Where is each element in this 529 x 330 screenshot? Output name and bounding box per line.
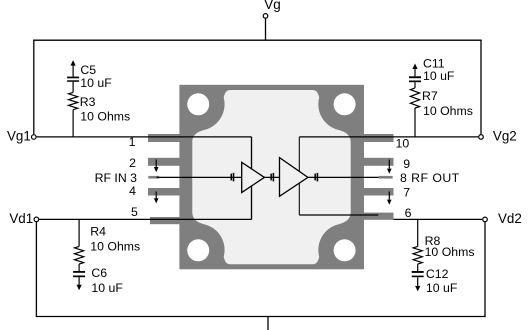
svg-text:10 Ohms: 10 Ohms [423, 104, 473, 118]
wire right border upper [480, 40, 482, 134]
node Vg [263, 14, 268, 19]
capacitor C11 [409, 64, 421, 88]
svg-text:R3: R3 [80, 95, 96, 109]
pin 1 [148, 134, 180, 142]
svg-text:Vd2: Vd2 [498, 211, 522, 226]
wire bias line through amp 2 [298, 137, 300, 215]
pin 5 [150, 217, 180, 224]
resistor R8 [413, 219, 422, 264]
svg-text:10 uF: 10 uF [423, 69, 455, 83]
svg-text:RF IN 3: RF IN 3 [95, 171, 138, 185]
svg-text:10 Ohms: 10 Ohms [90, 240, 140, 254]
node Vg2 [479, 135, 484, 140]
pin 4 [148, 188, 180, 196]
mounting hole bottom-left [187, 239, 209, 261]
svg-text:5: 5 [131, 205, 138, 219]
node Vg1 [32, 135, 37, 140]
wire bias line through amp 1 [251, 137, 253, 220]
wire right border lower [484, 222, 486, 316]
capacitor C12 [412, 264, 424, 291]
wire Vg1 to box top [37, 136, 252, 138]
mounting hole bottom-right [334, 239, 356, 261]
pin 2 [148, 158, 180, 166]
svg-text:10 Ohms: 10 Ohms [80, 109, 130, 123]
wire right box bottom to pin 6 [299, 214, 378, 216]
capacitor blocking C [314, 173, 318, 182]
pin 8 [379, 176, 393, 179]
svg-text:7: 7 [403, 186, 410, 200]
svg-text:Vg2: Vg2 [493, 128, 517, 143]
wire left border upper [33, 40, 35, 134]
capacitor C6 [73, 264, 85, 290]
svg-text:C12: C12 [426, 267, 449, 281]
svg-text:1: 1 [129, 135, 136, 149]
package body [192, 90, 350, 264]
ground arrow pin 7 [387, 192, 392, 205]
svg-text:4: 4 [129, 184, 136, 198]
pin 9 [364, 158, 394, 166]
pin 6 [364, 213, 394, 220]
svg-text:Vd1: Vd1 [9, 211, 33, 226]
capacitor blocking A [231, 173, 235, 182]
wire bottom rail [36, 316, 486, 318]
capacitor blocking B [270, 173, 274, 182]
wire left box right edge [251, 137, 253, 220]
svg-text:R4: R4 [90, 225, 106, 239]
pin 10 [364, 134, 394, 142]
wire Vd1 to box bottom [39, 218, 251, 220]
op-amp A2 [280, 158, 308, 197]
svg-text:10 uF: 10 uF [80, 76, 112, 90]
wire bottom center stub [267, 317, 269, 330]
wire top rail [33, 39, 482, 41]
svg-text:R7: R7 [422, 89, 438, 103]
capacitor C5 [67, 60, 79, 92]
node Vd1 [34, 217, 39, 222]
svg-text:10 uF: 10 uF [426, 281, 458, 295]
wire left border lower [35, 222, 37, 316]
wire Vg stub [265, 19, 267, 41]
wire Vg2 to box top [299, 136, 478, 138]
op-amp A1 [242, 162, 265, 192]
svg-text:10: 10 [396, 136, 410, 150]
svg-text:10 uF: 10 uF [91, 281, 123, 295]
wire Vd2 to pin 6 [394, 218, 483, 220]
ground arrow pin 2 [154, 160, 159, 173]
resistor R4 [75, 219, 84, 264]
resistor R7 [410, 88, 419, 137]
svg-text:2: 2 [129, 156, 136, 170]
svg-text:C6: C6 [91, 266, 107, 280]
node Vd2 [483, 217, 488, 222]
resistor R3 [69, 92, 78, 136]
svg-text:8 RF OUT: 8 RF OUT [400, 171, 460, 185]
pin 3 [148, 176, 159, 179]
mounting hole top-left [187, 93, 209, 115]
svg-text:6: 6 [405, 206, 412, 220]
mounting hole top-right [334, 93, 356, 115]
package flange [179, 85, 364, 269]
svg-text:10 Ohms: 10 Ohms [425, 245, 475, 259]
ground arrow pin 4 [154, 192, 159, 204]
ground arrow pin 9 [387, 160, 392, 174]
svg-text:Vg: Vg [264, 0, 280, 12]
pin 7 [364, 188, 394, 196]
svg-text:9: 9 [403, 157, 410, 171]
svg-text:Vg1: Vg1 [7, 128, 31, 143]
wire RF path line [157, 176, 379, 178]
